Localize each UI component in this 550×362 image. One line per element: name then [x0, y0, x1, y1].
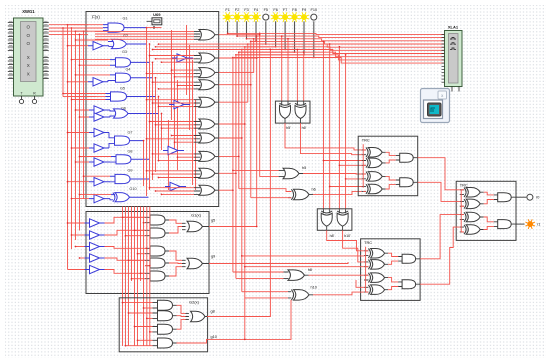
xor-gate in TRC row3 (TRC3) — [460, 212, 484, 222]
xor-gate in TRC row4 (TRC1) — [362, 184, 386, 194]
svg-text:T: T — [20, 92, 22, 96]
wire h8' output — [327, 230, 365, 250]
gate G4 (buffer + AND2) — [88, 73, 153, 86]
svg-text:X: X — [27, 63, 30, 68]
wire h10' output — [343, 230, 365, 262]
xor-gate in TRC row3 (TRC1) — [362, 172, 386, 182]
buffer G1x-4 — [85, 254, 105, 262]
wire TRC3 out r0 — [516, 196, 526, 198]
wire h6 inputs — [239, 189, 291, 198]
pin of F5 — [265, 21, 267, 44]
or-gate g8 — [186, 311, 208, 322]
wire h10 inputs — [242, 292, 288, 298]
xor-gate in TRC row2 (TRC3) — [460, 199, 484, 209]
wire G1(x) buffer inputs — [67, 222, 85, 269]
svg-text:G5: G5 — [120, 87, 125, 91]
and-gate G2x-A4 — [153, 338, 177, 348]
label g8 — [211, 309, 215, 313]
wire TRC1 out2 — [418, 182, 460, 201]
and-gate G1x-A5 — [145, 271, 169, 281]
or-gate h8 — [284, 270, 309, 281]
xor-gate in TRC row2 (TRC1) — [362, 158, 386, 168]
pin of F4 — [255, 21, 257, 41]
label F3 — [244, 8, 248, 12]
indicator F6 LED — [271, 12, 281, 22]
svg-text:F6: F6 — [273, 8, 277, 12]
gate G7 (2 buffers + AND2) — [89, 128, 144, 152]
svg-text:X: X — [27, 71, 30, 76]
label h8 — [308, 268, 312, 272]
svg-text:O: O — [26, 25, 30, 30]
wire g10 output — [177, 300, 292, 343]
wire h5 inputs — [232, 170, 279, 177]
wire taps to F(x) gate inputs — [62, 25, 111, 200]
label h5 — [302, 166, 306, 170]
pin of F6 — [275, 21, 277, 47]
and-gate G2x-A1 — [153, 300, 177, 310]
wire TRC2 out1 — [420, 215, 460, 259]
indicator r1 — [525, 219, 535, 229]
svg-text:F2: F2 — [235, 8, 239, 12]
wire TRC2 out2 — [420, 227, 460, 284]
label F7 — [283, 8, 287, 12]
svg-text:r1: r1 — [537, 223, 540, 227]
label TRC (TRC2) — [364, 240, 372, 245]
label G4 — [125, 68, 130, 72]
and-gate G2x-A2 — [153, 311, 177, 321]
buffer mid U-b — [169, 100, 190, 108]
or-gate S10 (sum to F10) — [194, 185, 219, 195]
pin of F3 — [246, 21, 248, 39]
instrument icon (analyzer) — [421, 89, 450, 123]
label r1 — [537, 223, 540, 227]
and-gate in TRC out1 (TRC3) — [494, 193, 517, 202]
wire TRC2 extra inputs — [241, 255, 364, 287]
svg-text:G1(x): G1(x) — [191, 213, 202, 218]
logic analyzer U1A1 — [442, 31, 463, 92]
indicator F5 LED — [263, 14, 269, 20]
pin of F10 — [313, 21, 315, 57]
or-gate S7 (sum to F7) — [194, 133, 219, 143]
indicator F3 LED — [242, 12, 252, 22]
svg-text:XLA1: XLA1 — [448, 24, 459, 29]
pin of F9 — [303, 21, 305, 55]
svg-text:F8: F8 — [292, 8, 296, 12]
label h8' — [330, 234, 335, 238]
label G8 — [127, 150, 132, 154]
svg-text:F5: F5 — [264, 8, 268, 12]
label G7 — [127, 131, 132, 135]
label F8 — [292, 8, 296, 12]
label G6 — [121, 107, 126, 111]
label h5' — [286, 126, 291, 130]
gate G3 (AND2) — [110, 58, 150, 67]
word generator XWG1 — [8, 18, 49, 104]
wire mid bus verticals — [143, 27, 163, 196]
wire g5 output — [209, 226, 258, 228]
wire TRC internal links (TRC3) — [461, 189, 494, 232]
label F4 — [254, 8, 258, 12]
label TRC (TRC3) — [460, 183, 468, 188]
buffer G1x-5 — [85, 265, 105, 273]
pin of F2 — [236, 21, 238, 36]
svg-text:G6: G6 — [121, 107, 126, 111]
svg-text:G8: G8 — [127, 150, 132, 154]
wire h8 inputs — [233, 272, 284, 278]
or-gate S6 (sum to F6) — [194, 119, 219, 129]
svg-text:F7: F7 — [283, 8, 287, 12]
and-gate G1x-A4 — [145, 258, 169, 268]
label h10 — [311, 285, 317, 289]
label g5 — [211, 219, 215, 223]
block TRC border (TRC1) — [358, 136, 418, 196]
svg-text:h6: h6 — [312, 187, 316, 191]
gate G10 (buffer + XOR2) — [89, 193, 149, 203]
indicator F1 LED — [223, 12, 233, 22]
svg-text:r0: r0 — [536, 196, 539, 200]
xor-gate h5-prime — [280, 102, 291, 124]
or-gate g5 — [182, 221, 209, 232]
gate G9 (buffer + AND2) — [89, 174, 149, 186]
label F9 — [302, 8, 306, 12]
svg-text:g5: g5 — [211, 219, 215, 223]
label F5 — [264, 8, 268, 12]
wire h10 output — [313, 292, 364, 295]
label g9 — [211, 255, 215, 259]
wire h5' output — [285, 123, 362, 150]
or-gate S4 (sum to F4) — [194, 80, 219, 90]
block G1(x) border — [86, 212, 209, 294]
pin of F8 — [294, 21, 296, 52]
svg-text:h8': h8' — [330, 234, 335, 238]
label G3 — [122, 50, 127, 54]
buffer mid U-a — [172, 54, 193, 62]
svg-text:F10: F10 — [311, 8, 318, 12]
wire bus from XWG1 outputs — [49, 24, 96, 259]
label XWG1 — [22, 9, 35, 14]
svg-text:F(x): F(x) — [92, 15, 100, 20]
svg-text:TRC: TRC — [460, 183, 468, 188]
xor-gate h10-prime — [337, 209, 348, 230]
block G2(x) border — [119, 298, 207, 352]
or-gate S3 (sum to F3) — [194, 68, 219, 78]
buffer mid U-d — [165, 182, 186, 190]
or-gate S8 (sum to F8) — [194, 151, 219, 161]
wire G1(x) internal — [105, 217, 183, 276]
indicator F2 LED — [232, 12, 242, 22]
and-gate in TRC out2 (TRC2) — [398, 280, 420, 289]
wire taps into sum gates — [95, 31, 194, 195]
and-gate G1x-A2 — [145, 228, 169, 238]
wire h6 output to TRC — [313, 191, 362, 194]
wire g8 output — [207, 49, 271, 317]
buffer mid U-c — [163, 146, 184, 154]
label G1(x) — [191, 213, 202, 218]
or-gate h5 — [279, 168, 303, 179]
or-gate S9 (sum to F9) — [194, 168, 219, 178]
and-gate in TRC out2 (TRC1) — [396, 178, 418, 187]
block TRC border (TRC2) — [361, 239, 421, 301]
label G1 — [122, 17, 127, 21]
label F1 — [225, 8, 229, 12]
svg-text:O: O — [26, 41, 30, 46]
wire right distribution verticals — [169, 25, 196, 190]
label G10 — [129, 187, 136, 191]
svg-text:h8: h8 — [308, 268, 312, 272]
label h10' — [344, 234, 351, 238]
xor-gate in TRC row3 (TRC2) — [364, 273, 388, 283]
svg-text:h5': h5' — [286, 126, 291, 130]
gate G1 (AND3) — [103, 23, 147, 32]
block F(x) border — [86, 12, 219, 207]
wire TRC internal links (TRC2) — [366, 247, 399, 293]
or-gate S5 (sum to F5) — [194, 97, 219, 107]
label F10 — [311, 8, 318, 12]
buffer G1x-3 — [85, 242, 105, 250]
gate G8 (buffer + AND2) — [89, 155, 149, 167]
indicator F7 LED — [280, 12, 290, 22]
wire h5 output to TRC — [303, 173, 362, 176]
label r0 — [536, 196, 539, 200]
svg-text:G4: G4 — [125, 68, 130, 72]
xor-gate h6 — [288, 189, 313, 200]
and-gate G1x-A1 — [145, 215, 169, 225]
gate G2 (buffer + OR2) — [88, 39, 147, 50]
pin of F1 — [227, 21, 229, 33]
and-gate G1x-A3 — [145, 246, 169, 256]
xor-gate in TRC row1 (TRC3) — [460, 188, 484, 198]
svg-text:h10: h10 — [311, 285, 317, 289]
buffer G1x-2 — [85, 231, 105, 239]
svg-text:h6': h6' — [302, 126, 307, 130]
svg-text:U69: U69 — [153, 12, 161, 17]
label F2 — [235, 8, 239, 12]
label U69 — [153, 12, 161, 17]
svg-text:G2: G2 — [123, 34, 128, 38]
svg-text:G7: G7 — [127, 131, 132, 135]
svg-text:X: X — [27, 55, 30, 60]
svg-text:G9: G9 — [127, 169, 132, 173]
resistor U69 — [147, 18, 162, 29]
label G2(x) — [189, 299, 200, 304]
label h6 — [312, 187, 316, 191]
svg-text:G3: G3 — [122, 50, 127, 54]
label TRC (TRC1) — [362, 137, 370, 142]
svg-text:g9: g9 — [211, 255, 215, 259]
wire G2(x) internal — [177, 305, 186, 329]
xor-gate in TRC row1 (TRC2) — [364, 249, 388, 259]
indicator F4 LED — [251, 12, 261, 22]
svg-text:F3: F3 — [244, 8, 248, 12]
xor-gate h6-prime — [295, 102, 306, 124]
indicator r0 — [527, 194, 533, 200]
wire bundle sum outputs to F LEDs and U1A1 — [152, 33, 445, 340]
wire TRC1 out1 — [418, 158, 460, 190]
svg-text:h10': h10' — [344, 234, 351, 238]
xor-gate in TRC row2 (TRC2) — [364, 260, 388, 270]
gate G5 (AND3) — [106, 92, 156, 101]
svg-text:F4: F4 — [254, 8, 258, 12]
label G2 — [123, 34, 128, 38]
or-gate g9 — [182, 258, 209, 269]
label F6 — [273, 8, 277, 12]
wire drops from top bundle — [281, 35, 347, 209]
and-gate G2x-A3 — [153, 324, 177, 334]
svg-text:g8: g8 — [211, 309, 215, 313]
label G9 — [127, 169, 132, 173]
wire extra TRC1 inputs — [323, 160, 362, 188]
svg-text:TRC: TRC — [364, 240, 372, 245]
xor-gate h8-prime — [321, 209, 332, 230]
wire h6' output — [301, 123, 362, 155]
svg-text:XWG1: XWG1 — [22, 9, 35, 14]
xor-gate in TRC row4 (TRC2) — [364, 285, 388, 295]
svg-text:O: O — [26, 33, 30, 38]
buffer G1x-1 — [85, 219, 105, 227]
block TRC border (TRC3) — [456, 181, 516, 240]
xor-gate in TRC row4 (TRC3) — [460, 225, 484, 234]
or-gate S1 (sum to F1) — [194, 30, 219, 41]
wire TRC internal links (TRC1) — [363, 144, 396, 191]
label G5 — [120, 87, 125, 91]
label h6' — [302, 126, 307, 130]
svg-text:G1: G1 — [122, 17, 127, 21]
indicator F8 LED — [290, 12, 300, 22]
xor-gate h10 — [288, 290, 313, 301]
svg-text:F9: F9 — [302, 8, 306, 12]
gate G6 (2 buffers + OR2) — [89, 106, 158, 121]
label g10 — [211, 335, 217, 339]
svg-text:g10: g10 — [211, 335, 217, 339]
wire g9 output — [209, 262, 348, 264]
label U1A1 — [448, 24, 459, 29]
block box h8'/h10' — [317, 209, 352, 231]
pin of F7 — [284, 21, 286, 49]
svg-text:G2(x): G2(x) — [189, 299, 200, 304]
indicator F10 LED — [311, 14, 317, 20]
svg-text:G10: G10 — [129, 187, 136, 191]
indicator F9 LED — [299, 12, 309, 22]
xor-gate in TRC row1 (TRC1) — [362, 148, 386, 158]
and-gate in TRC out1 (TRC1) — [396, 153, 418, 162]
wire h8 output — [309, 274, 365, 276]
svg-text:F1: F1 — [225, 8, 229, 12]
label F(x) — [92, 15, 100, 20]
wire vertical feed bundle to G boxes — [122, 207, 153, 347]
svg-text:h5: h5 — [302, 166, 306, 170]
or-gate S2 (sum to F2) — [194, 53, 219, 63]
svg-text:TRC: TRC — [362, 137, 370, 142]
and-gate in TRC out2 (TRC3) — [494, 220, 517, 229]
block box h5'/h6' — [275, 101, 310, 123]
and-gate in TRC out1 (TRC2) — [398, 254, 420, 263]
wire TRC3 out r1 — [516, 223, 525, 225]
